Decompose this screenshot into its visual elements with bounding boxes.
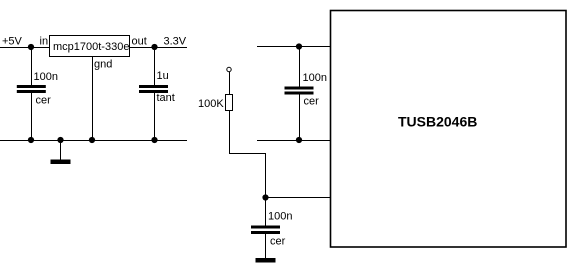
svg-text:TUSB2046B: TUSB2046B: [398, 114, 477, 130]
capacitor C3 100n cer: [251, 211, 292, 248]
junction dot R1/C3 node: [262, 194, 268, 200]
wire R1 bottom lead to C3: [230, 110, 266, 226]
wire C1 top lead: [31, 47, 33, 85]
svg-text:cer: cer: [304, 95, 320, 107]
svg-text:+5V: +5V: [2, 35, 23, 47]
junction dot C1 ground: [28, 137, 34, 143]
junction dot C4 top: [296, 43, 302, 49]
svg-text:gnd: gnd: [94, 59, 112, 71]
svg-text:100n: 100n: [268, 211, 292, 223]
wire C3 bottom lead: [265, 234, 267, 259]
svg-text:in: in: [40, 35, 49, 47]
svg-text:mcp1700t-330e: mcp1700t-330e: [53, 41, 129, 53]
junction dot C4 bottom: [296, 137, 302, 143]
svg-text:3.3V: 3.3V: [164, 35, 187, 47]
wire R1 top lead: [229, 72, 231, 95]
terminal open circle: [227, 67, 231, 71]
wire output rail: [130, 47, 188, 49]
wire R1 node to IC: [266, 197, 332, 199]
junction dot C2 ground: [151, 137, 157, 143]
wire C1 bottom lead: [31, 93, 33, 141]
wire C4 top lead: [299, 46, 301, 87]
capacitor C2 1u tant: [139, 70, 175, 104]
wire C2 bottom lead: [154, 93, 156, 141]
junction dot input rail: [28, 44, 34, 50]
wire IC second pin: [257, 140, 331, 142]
capacitor C1 100n cer: [17, 71, 58, 106]
ground: [51, 140, 71, 164]
wire input rail: [0, 47, 50, 49]
junction dot output rail: [151, 44, 157, 50]
wire C2 top lead: [154, 47, 156, 85]
svg-text:cer: cer: [270, 235, 286, 247]
svg-text:100n: 100n: [303, 72, 327, 84]
svg-text:100K: 100K: [198, 98, 224, 110]
svg-text:tant: tant: [157, 92, 175, 104]
svg-text:1u: 1u: [157, 70, 169, 82]
junction dot ground symbol: [57, 137, 63, 143]
svg-text:out: out: [132, 35, 147, 47]
svg-text:100n: 100n: [34, 71, 58, 83]
junction dot gnd pin: [89, 137, 95, 143]
capacitor C4 100n cer: [285, 72, 327, 107]
wire IC top supply: [257, 46, 331, 48]
regulator U1 mcp1700t-330e: [50, 36, 130, 57]
ground: [256, 258, 276, 263]
IC U2 TUSB2046B: [331, 11, 567, 248]
resistor R1 100K: [198, 95, 233, 111]
wire gnd pin lead: [92, 56, 94, 141]
wire ground rail: [0, 140, 187, 142]
wire C4 bottom lead: [299, 95, 301, 142]
svg-text:cer: cer: [36, 95, 52, 107]
